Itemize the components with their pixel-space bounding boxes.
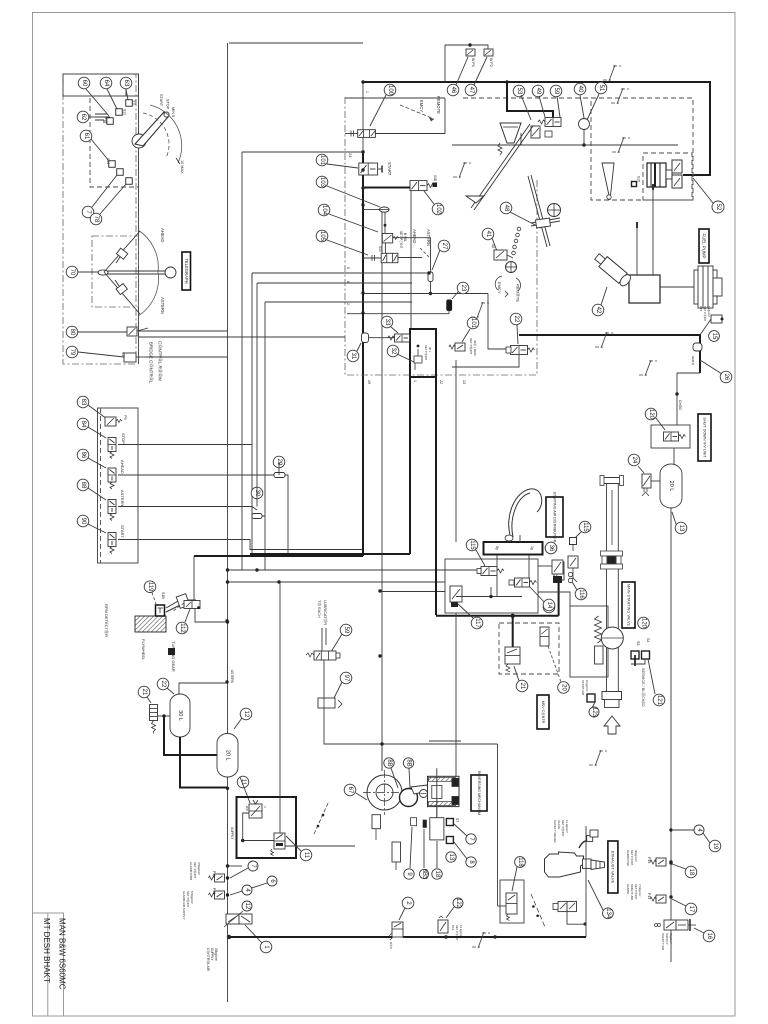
wire pump to vessel w/ bold drop <box>158 715 171 717</box>
balloon 41 <box>482 228 494 240</box>
wire: console top box to main bus <box>229 42 363 44</box>
wire x296 <box>279 583 281 780</box>
balloon 120 <box>645 408 657 420</box>
fuel pump plunger lines up <box>636 228 638 275</box>
balloon 8B <box>384 758 394 768</box>
svg-text:SUPPLY: SUPPLY <box>230 827 234 840</box>
svg-text:134: 134 <box>605 908 611 919</box>
svg-text:START: START <box>120 525 125 538</box>
fuel pump body <box>629 275 660 303</box>
svg-text:46: 46 <box>450 87 456 94</box>
safety valve 16 <box>655 919 697 931</box>
svg-text:24: 24 <box>348 153 353 158</box>
svg-text:52: 52 <box>715 204 721 211</box>
svg-text:LUBRICATⓄR: LUBRICATⓄR <box>323 600 328 625</box>
governor dashed box <box>463 97 591 99</box>
svg-text:P9: P9 <box>123 415 127 420</box>
valve 33 <box>388 334 410 342</box>
svg-text:P13: P13 <box>647 857 651 863</box>
svg-text:49: 49 <box>535 88 541 95</box>
link lever <box>411 785 429 794</box>
svg-text:14: 14 <box>546 602 552 609</box>
svg-text:1: 1 <box>365 91 369 93</box>
valve 104 ahead setpoint <box>382 234 398 243</box>
balloon 21 <box>138 686 150 698</box>
pressure reg 101 small <box>449 343 465 351</box>
svg-text:R⑩: R⑩ <box>245 806 249 811</box>
svg-text:121: 121 <box>656 695 662 706</box>
balloon 104 <box>318 204 330 216</box>
distributor drive cylinder <box>430 807 444 840</box>
wire: restrictor down to valve 22 <box>430 282 432 294</box>
air spring pipe <box>585 826 587 937</box>
balloon 18 <box>685 866 697 878</box>
dots on x227 <box>361 150 364 153</box>
svg-text:AHEAD: AHEAD <box>412 229 417 243</box>
dashed box around valve 21 <box>499 623 559 674</box>
fuel rack rods <box>471 124 550 247</box>
breaks right <box>453 162 471 178</box>
wire: astern line with fitting 30 <box>118 507 257 511</box>
svg-text:SAFETY AIR: SAFETY AIR <box>661 933 665 951</box>
svg-text:4.5kg/cm²: 4.5kg/cm² <box>197 862 201 875</box>
balloon 105 <box>316 230 328 242</box>
S7 square <box>446 819 453 826</box>
spring cylinder left <box>392 842 401 862</box>
governor actuator <box>647 160 682 188</box>
svg-text:P11: P11 <box>212 871 216 877</box>
balloon 7 <box>248 861 258 871</box>
wire x456 <box>455 360 457 542</box>
balloon 101 <box>467 317 479 329</box>
svg-text:9 kg/cm²: 9 kg/cm² <box>585 680 589 692</box>
svg-text:SUPPLY: SUPPLY <box>210 948 214 961</box>
svg-text:5y: 5y <box>495 546 499 550</box>
balloon 49 <box>532 85 544 97</box>
svg-text:30 L: 30 L <box>428 347 432 353</box>
balloon 12 <box>242 901 252 911</box>
balloon 27 <box>438 240 450 252</box>
telegraph arc <box>138 230 159 316</box>
balloon 121 <box>653 694 665 706</box>
svg-text:60: 60 <box>81 80 87 87</box>
svg-text:S7: S7 <box>455 818 459 822</box>
wire x454 distributor to reversing cyl <box>455 613 457 776</box>
reducing valve 1 <box>224 911 252 927</box>
bold header y556 <box>194 555 363 557</box>
balloon 101 <box>316 154 328 166</box>
valve 115 <box>481 567 504 576</box>
svg-text:MSV CⓄNTR: MSV CⓄNTR <box>541 701 546 724</box>
svg-text:78: 78 <box>93 216 99 223</box>
svg-text:SHUT DOWN V/V UNIT: SHUT DOWN V/V UNIT <box>703 417 707 458</box>
svg-text:BRIDGE CⓄNTRⓄL: BRIDGE CⓄNTRⓄL <box>148 342 155 384</box>
fuel rack actuator diagonal <box>593 251 633 287</box>
valve 20 in control box <box>540 627 549 646</box>
balloon 60 <box>78 77 90 89</box>
svg-text:27: 27 <box>441 243 447 250</box>
svg-text:DⓄC: DⓄC <box>389 942 393 949</box>
balloon 18 <box>432 869 442 879</box>
svg-text:63: 63 <box>123 80 129 87</box>
svg-text:10 MAX: 10 MAX <box>180 160 184 174</box>
telegraph keys <box>116 248 127 259</box>
exhaust valve assembly <box>545 852 605 877</box>
balloon 15 <box>709 331 720 342</box>
balloon 7 <box>466 834 476 844</box>
vessel 20L right <box>673 448 675 464</box>
balloon 36 <box>545 542 557 554</box>
FUEL PUMP label <box>699 229 709 263</box>
wire: ahead line with fitting 29 <box>118 474 274 476</box>
svg-text:8B: 8B <box>406 759 412 766</box>
wire valve100 to remote frame <box>375 98 445 134</box>
svg-text:20 L: 20 L <box>225 750 231 761</box>
svg-text:P14: P14 <box>647 893 651 899</box>
valve S8 under donut <box>372 815 381 829</box>
links inside distributor <box>496 555 498 571</box>
handwheel top <box>548 204 561 217</box>
svg-text:51: 51 <box>598 85 604 92</box>
balloon 117 <box>471 617 483 629</box>
balloon 8 <box>466 857 476 867</box>
svg-text:MT DESH BHAKT: MT DESH BHAKT <box>42 918 51 983</box>
svg-text:SET PⓄINT: SET PⓄINT <box>630 850 634 866</box>
fuel pump cam housing right <box>694 266 722 308</box>
svg-text:13: 13 <box>448 854 454 861</box>
svg-text:S6: S6 <box>491 244 495 248</box>
svg-text:118: 118 <box>517 857 523 867</box>
svg-text:47: 47 <box>468 87 474 94</box>
svg-text:67: 67 <box>347 787 353 794</box>
balloon 112 <box>176 622 188 634</box>
svg-text:S13: S13 <box>104 117 108 123</box>
svg-text:MAIN STARTING VALVE: MAIN STARTING VALVE <box>627 584 631 627</box>
svg-text:V: V <box>263 806 267 808</box>
wires below box <box>228 865 243 867</box>
wires into interlock box 31 from consoles <box>252 272 429 274</box>
small sq + dark rect <box>411 818 417 826</box>
svg-text:FLYWHEEL: FLYWHEEL <box>141 639 146 661</box>
svg-text:18: 18 <box>434 871 440 878</box>
svg-text:120: 120 <box>648 409 654 420</box>
bold 30L bottom to supply line <box>180 737 228 788</box>
distributor outer box <box>445 559 538 613</box>
wire y313.7 <box>448 311 450 314</box>
svg-text:SAFETY AIR: SAFETY AIR <box>630 884 634 900</box>
valve 22 wsv <box>511 346 535 355</box>
valve 123 <box>438 916 448 933</box>
valve under 49 <box>531 126 540 138</box>
balloon 86 <box>77 449 89 461</box>
switch S13 <box>107 118 114 125</box>
svg-text:102: 102 <box>435 204 441 215</box>
svg-text:S11: S11 <box>133 100 137 106</box>
spring symbol <box>498 143 502 155</box>
pressure switches W P2 / W P3 <box>445 45 488 82</box>
bead chain <box>512 227 521 255</box>
svg-text:20: 20 <box>561 684 567 691</box>
balloon 8B3 <box>419 869 428 880</box>
control air supply bold <box>229 936 392 938</box>
svg-text:P16: P16 <box>451 925 455 931</box>
svg-text:SAFETY RELIEF: SAFETY RELIEF <box>553 820 557 843</box>
balloon 116 <box>575 588 587 600</box>
leader lines to switches <box>86 89 109 116</box>
svg-text:62: 62 <box>80 114 86 121</box>
svg-text:30kg/cm²: 30kg/cm² <box>214 948 218 961</box>
linkage bar <box>531 218 560 223</box>
CR console box <box>98 408 139 563</box>
wire: x412 stop-branch vertical <box>410 191 412 329</box>
svg-text:5.5kg/cm²: 5.5kg/cm² <box>190 891 194 904</box>
svg-text:SET PⓄINT: SET PⓄINT <box>703 306 707 322</box>
svg-text:42: 42 <box>595 307 601 314</box>
balloon 22 <box>157 678 169 690</box>
balloon 97 <box>340 672 352 684</box>
svg-text:120: 120 <box>641 618 647 629</box>
svg-text:101: 101 <box>319 155 325 166</box>
valve 21 <box>505 647 520 672</box>
svg-text:32: 32 <box>390 348 396 355</box>
svg-text:S12: S12 <box>123 109 127 115</box>
balloon 30 <box>251 487 263 499</box>
balloon 115 <box>466 539 478 551</box>
balloon 102 <box>432 203 444 215</box>
junction dots mid-left <box>378 589 381 592</box>
P13 <box>650 858 666 866</box>
wires msv area <box>538 565 552 567</box>
30L top stub to supply <box>179 683 228 694</box>
main starting valve body <box>600 476 624 708</box>
svg-text:116: 116 <box>578 589 584 599</box>
balloon 61 <box>80 130 92 142</box>
balloon 118 <box>515 857 526 868</box>
balloon 4 <box>242 885 252 895</box>
svg-text:ASTERN: ASTERN <box>230 670 234 684</box>
svg-text:20 L: 20 L <box>668 481 674 492</box>
valve B inside <box>271 833 286 856</box>
switch S11 <box>126 100 133 107</box>
svg-text:83: 83 <box>80 399 86 406</box>
bold riser x363 <box>362 82 364 152</box>
main bold bus y82 <box>363 82 710 175</box>
svg-text:33: 33 <box>384 319 390 326</box>
safety air column <box>669 828 672 831</box>
balloon 83 <box>77 396 89 408</box>
valve 101 START <box>359 163 378 175</box>
svg-text:AHEAD: AHEAD <box>120 460 125 474</box>
balloon 14 <box>543 599 555 611</box>
balloon 21 <box>516 680 528 692</box>
balloon 64 <box>100 77 112 89</box>
lever arrow mark <box>176 158 180 164</box>
wire: y273 lines joining <box>427 271 430 274</box>
balloon 6 <box>267 876 277 886</box>
svg-text:START: START <box>159 94 163 107</box>
balloon 29 <box>273 456 285 468</box>
svg-text:START: START <box>387 162 392 176</box>
svg-text:S15: S15 <box>637 176 641 182</box>
dashed leader bottom-left of exh <box>531 894 545 927</box>
telegraph lever <box>98 267 176 278</box>
svg-text:41: 41 <box>485 231 491 238</box>
bridge console top box <box>63 74 139 96</box>
svg-text:MAN B&W 6S60MC: MAN B&W 6S60MC <box>58 918 67 990</box>
wire y591 into distributor <box>382 591 445 593</box>
valve 105 S10 selector <box>381 253 398 262</box>
valve 31 fitting <box>362 333 369 343</box>
balloon 122 <box>453 898 463 909</box>
title block <box>33 913 64 1016</box>
P16 fitting right <box>711 315 722 323</box>
svg-text:88: 88 <box>80 482 86 489</box>
balloon 11 <box>300 849 312 861</box>
switch S16 <box>126 178 133 185</box>
svg-text:16 kg/cm²: 16 kg/cm² <box>459 925 463 937</box>
svg-text:16: 16 <box>706 933 712 940</box>
bold branch into governor cluster <box>507 82 553 117</box>
balloon 53 <box>513 85 525 97</box>
wire: x456 up <box>519 535 521 542</box>
shut down vv unit box <box>651 425 690 448</box>
svg-text:100: 100 <box>387 85 393 96</box>
svg-text:SET PⓄINT: SET PⓄINT <box>424 345 428 361</box>
valve A inside <box>249 800 262 818</box>
balloon 63 <box>120 77 132 89</box>
reversing air cylinder <box>428 768 460 818</box>
balloon 26 <box>720 371 732 383</box>
speed lever <box>132 105 182 163</box>
wire: second box top y152 <box>242 151 363 153</box>
balloon 59 <box>550 85 562 97</box>
svg-text:6: 6 <box>346 267 350 269</box>
wire to shutdown unit <box>677 373 700 425</box>
balloon 13 <box>675 522 687 534</box>
governor speed-setting valve cluster <box>500 123 521 143</box>
S15 switch <box>632 182 637 187</box>
bold start-air bottom line <box>403 936 586 938</box>
svg-text:12: 12 <box>243 711 249 718</box>
starting air distributor label <box>546 492 563 543</box>
svg-text:59: 59 <box>553 88 559 95</box>
svg-text:REMⓄ: REMⓄ <box>691 356 695 365</box>
svg-text:30Ⓚ | REM: 30Ⓚ | REM <box>473 340 478 356</box>
svg-text:97: 97 <box>343 675 349 682</box>
balloon 17 <box>685 903 697 915</box>
balloon 90 <box>77 515 89 527</box>
svg-text:EMCY: EMCY <box>419 100 424 112</box>
svg-text:21: 21 <box>141 689 147 696</box>
vessel 20L left <box>217 734 238 778</box>
svg-text:S1D: S1D <box>433 175 437 182</box>
svg-text:22: 22 <box>439 380 443 384</box>
supply line down right <box>670 508 672 962</box>
svg-text:64: 64 <box>103 80 109 87</box>
svg-text:STOP: STOP <box>121 433 126 444</box>
svg-text:START AIR: START AIR <box>581 680 585 696</box>
balloon 9 <box>404 869 414 879</box>
svg-text:S1B: S1B <box>161 592 165 599</box>
balloon 36 <box>545 542 557 554</box>
distribution headers <box>228 569 482 571</box>
svg-text:1y: 1y <box>530 546 534 550</box>
svg-text:48: 48 <box>503 205 509 212</box>
valve 2 <box>389 922 403 940</box>
svg-text:ALARM PWR: ALARM PWR <box>189 862 193 881</box>
P14 <box>650 895 666 903</box>
svg-text:123: 123 <box>591 707 597 718</box>
svg-text:TURNING GEAR: TURNING GEAR <box>171 641 176 672</box>
wire 104 to fitting 27 <box>393 238 431 272</box>
svg-text:2: 2 <box>346 303 350 305</box>
svg-text:22: 22 <box>513 316 519 323</box>
valve 118 box <box>500 880 524 923</box>
fitting 23 vertical (dark) <box>447 300 452 311</box>
svg-text:26: 26 <box>723 374 729 381</box>
balloon 80 <box>66 326 78 338</box>
balloon 103 <box>316 176 328 188</box>
balloon 33 <box>381 316 393 328</box>
valve 114 <box>450 586 462 607</box>
svg-text:8: 8 <box>346 281 350 283</box>
balloon 24 <box>628 454 640 466</box>
dashed enclosure mid <box>345 97 537 375</box>
svg-text:90: 90 <box>80 518 86 525</box>
interlock box 31 <box>410 329 436 377</box>
svg-text:W P2: W P2 <box>489 58 493 67</box>
crank circle <box>400 789 418 807</box>
turning gear engage linkage <box>166 594 196 612</box>
svg-text:40: 40 <box>577 86 583 93</box>
EXHAUST VALVE label <box>608 841 618 893</box>
wire x382 continues <box>429 740 461 742</box>
balloon 1 <box>260 941 272 953</box>
bold line y335 <box>519 335 700 373</box>
balloon 100 <box>384 84 396 96</box>
balloon 123 <box>589 707 599 718</box>
svg-text:22: 22 <box>160 681 166 688</box>
svg-text:TⓄ EACH: TⓄ EACH <box>317 600 322 618</box>
svg-text:103: 103 <box>319 177 325 188</box>
turning gear interlock valve 112 <box>184 601 200 609</box>
svg-text:23: 23 <box>460 285 466 292</box>
svg-text:61: 61 <box>83 133 89 140</box>
svg-text:S4: S4 <box>646 638 650 642</box>
svg-text:119: 119 <box>147 582 153 592</box>
valve 113 <box>515 578 537 587</box>
valve 36 right of distributor <box>554 562 564 580</box>
flow restrictor fitting 27 <box>428 272 433 282</box>
bold riser x407 <box>250 553 410 555</box>
svg-text:19: 19 <box>712 843 718 850</box>
svg-text:117: 117 <box>474 618 480 628</box>
hose loops <box>509 489 542 535</box>
valve 134 air spring supply <box>553 901 577 911</box>
svg-text:ALARM: ALARM <box>626 884 630 894</box>
balloon 7 <box>82 206 94 218</box>
balloon 88 <box>77 479 89 491</box>
svg-text:S3: S3 <box>636 641 640 645</box>
svg-text:115: 115 <box>469 540 475 550</box>
svg-text:AHEAD: AHEAD <box>160 228 165 242</box>
svg-text:15: 15 <box>711 333 717 340</box>
wire: x382 long vertical <box>381 209 383 771</box>
svg-text:SET PⓄINT: SET PⓄINT <box>634 884 638 900</box>
svg-text:31: 31 <box>350 353 356 360</box>
balloon 32 <box>387 345 399 357</box>
svg-text:7.0kg/cm²: 7.0kg/cm² <box>638 884 642 896</box>
